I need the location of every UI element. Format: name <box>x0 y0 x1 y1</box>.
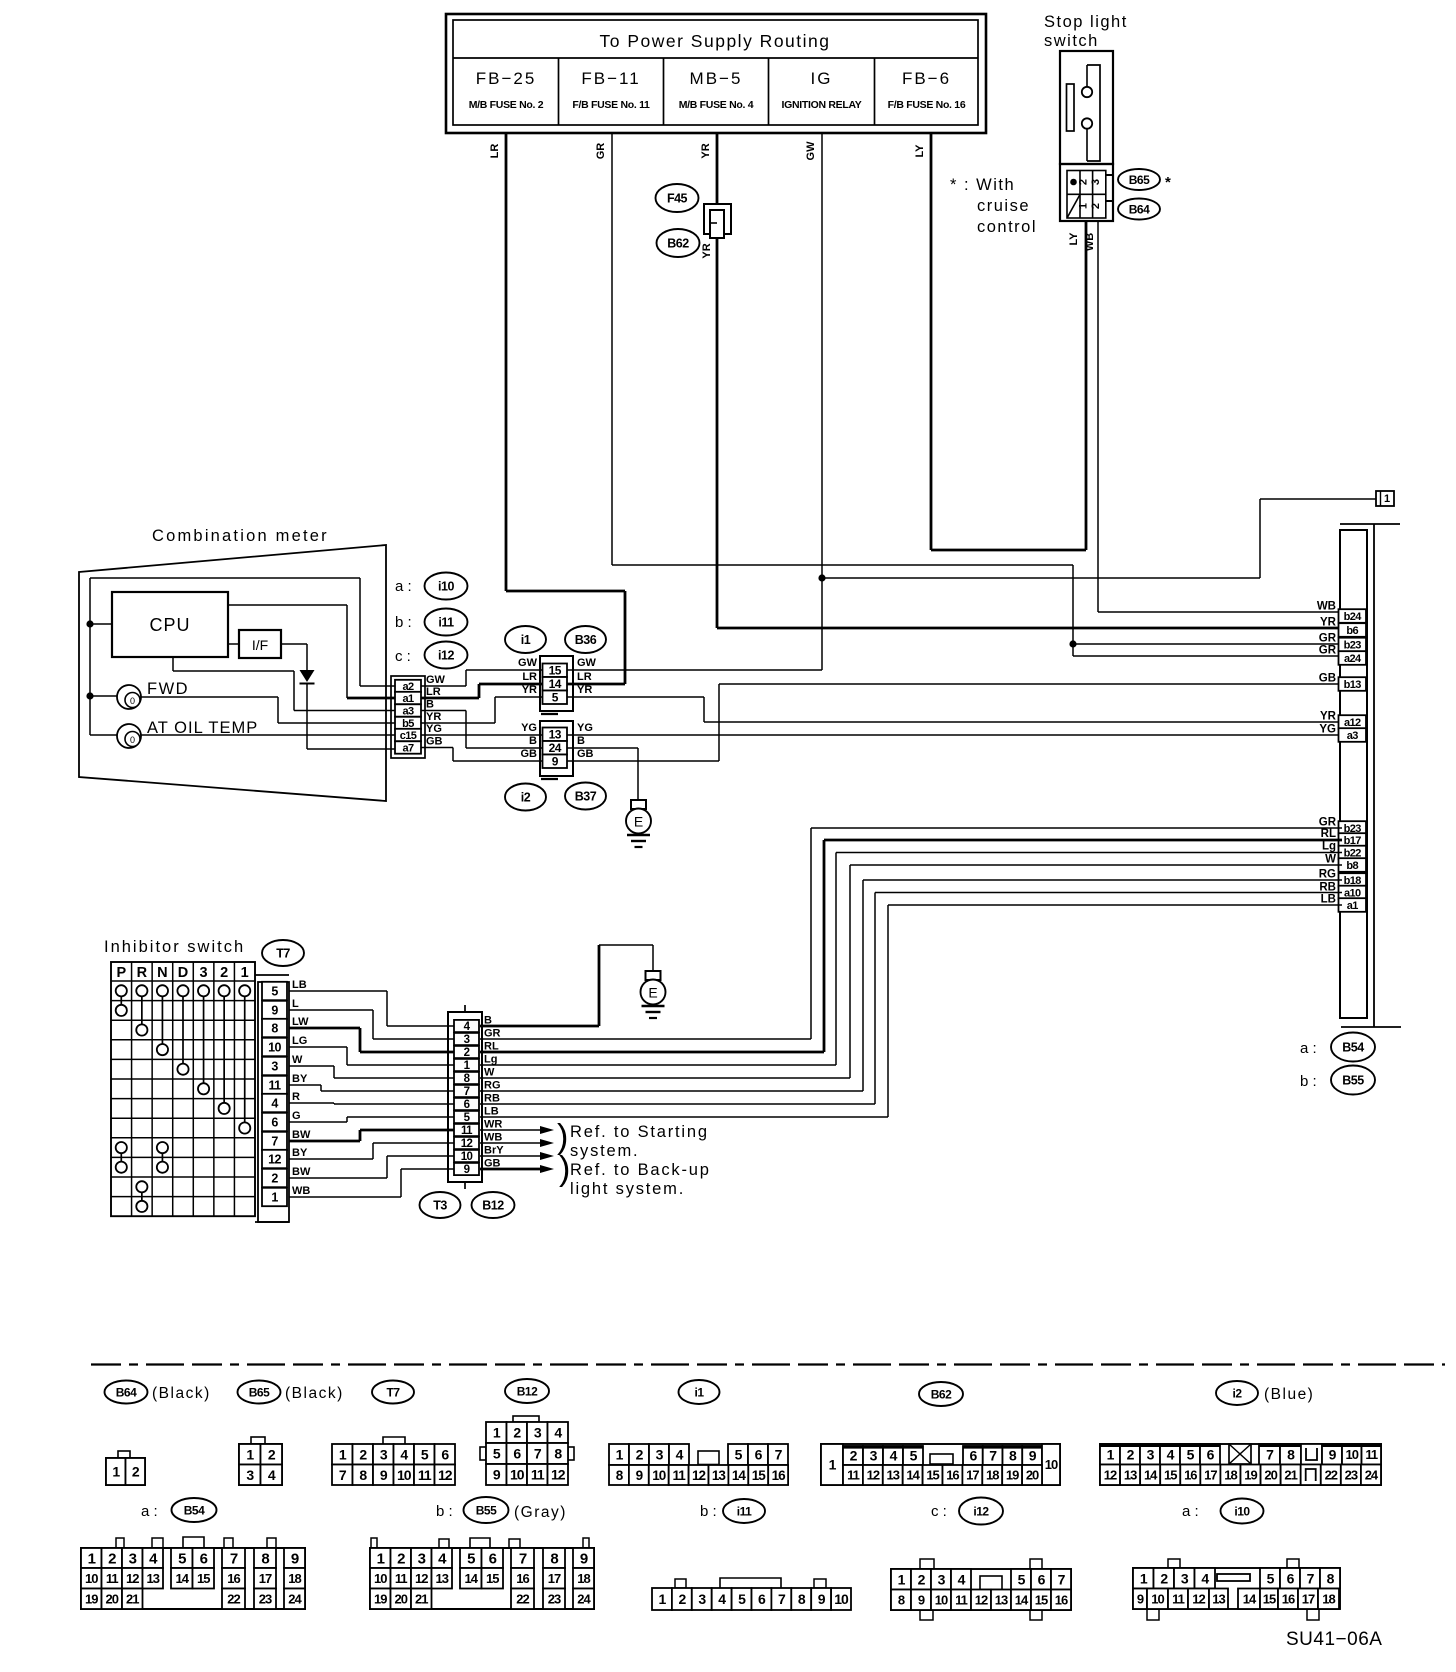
svg-text:E: E <box>648 985 657 1001</box>
svg-text:6: 6 <box>271 1116 278 1130</box>
svg-text:WB: WB <box>292 1185 310 1197</box>
wire BW T7 to B12 <box>289 1156 454 1178</box>
wire WB T7 to B12 <box>289 1169 454 1197</box>
svg-text:19: 19 <box>1006 1468 1019 1483</box>
svg-text:15: 15 <box>752 1468 767 1483</box>
matrix contact circles and links <box>116 985 251 1212</box>
svg-text:LG: LG <box>292 1035 307 1047</box>
connector B54 pin face <box>81 1537 305 1609</box>
svg-text:2: 2 <box>918 1571 926 1587</box>
svg-text:4: 4 <box>1201 1570 1209 1586</box>
svg-text:): ) <box>559 1150 570 1188</box>
connector B62 pin face <box>821 1444 1060 1485</box>
svg-text:5: 5 <box>1267 1570 1275 1586</box>
wire GW branch to connector 1 <box>822 499 1376 578</box>
svg-text:18: 18 <box>1322 1591 1335 1606</box>
connector label B37 <box>565 783 606 810</box>
svg-text:3: 3 <box>1090 179 1102 185</box>
svg-text:B62: B62 <box>667 237 689 251</box>
svg-text:13: 13 <box>887 1468 900 1483</box>
svg-text:20: 20 <box>1026 1468 1039 1483</box>
svg-text:6: 6 <box>969 1448 977 1464</box>
svg-text:B64: B64 <box>116 1385 137 1399</box>
svg-text:8: 8 <box>261 1550 269 1567</box>
svg-text:LR: LR <box>489 144 501 159</box>
fuse F45 <box>704 204 731 238</box>
svg-text:B12: B12 <box>482 1199 504 1213</box>
svg-text:6: 6 <box>200 1550 208 1567</box>
svg-text:3: 3 <box>698 1591 706 1607</box>
svg-text:9: 9 <box>1029 1448 1037 1464</box>
wire R T7 to B12 <box>289 1103 454 1104</box>
svg-text:1: 1 <box>829 1457 837 1473</box>
svg-text:6: 6 <box>489 1550 497 1567</box>
svg-text:LB: LB <box>292 979 307 991</box>
svg-text:1: 1 <box>271 1191 278 1205</box>
svg-text:FWD: FWD <box>147 680 189 698</box>
svg-text:IGNITION RELAY: IGNITION RELAY <box>781 99 861 111</box>
wire I/F to diode <box>281 644 307 670</box>
svg-text:22: 22 <box>1325 1467 1338 1482</box>
svg-text:6: 6 <box>1038 1571 1046 1587</box>
svg-text:16: 16 <box>516 1571 529 1586</box>
svg-text:4: 4 <box>268 1467 276 1483</box>
svg-text:YR: YR <box>700 143 712 158</box>
wire WB from stop light switch to b24 <box>1084 221 1342 612</box>
svg-text:B65: B65 <box>1129 173 1150 187</box>
svg-text:11: 11 <box>106 1571 119 1586</box>
svg-text:i2: i2 <box>521 791 531 805</box>
svg-text:9: 9 <box>580 1550 588 1567</box>
svg-text:R: R <box>292 1091 300 1103</box>
wire YR from MB-5 <box>700 133 717 628</box>
svg-text:6: 6 <box>513 1446 521 1462</box>
svg-text:B55: B55 <box>1342 1074 1364 1088</box>
svg-text:5: 5 <box>178 1550 186 1567</box>
svg-text:LB: LB <box>1321 894 1336 906</box>
wire GR B12 to TCU <box>480 828 1342 1039</box>
svg-text:2: 2 <box>268 1446 276 1462</box>
svg-text:Ref. to Starting: Ref. to Starting <box>570 1123 709 1141</box>
svg-text:*: * <box>1165 174 1171 191</box>
svg-text:14: 14 <box>1144 1467 1158 1482</box>
svg-text:3: 3 <box>870 1448 878 1464</box>
svg-text:6: 6 <box>755 1447 763 1463</box>
wire pin14 LR from FB-25 <box>567 671 625 684</box>
wire CPU left feed <box>90 623 112 625</box>
svg-text:11: 11 <box>673 1468 687 1483</box>
svg-text:a1: a1 <box>402 693 414 705</box>
label b : B55 <box>1300 1066 1375 1095</box>
svg-text:5: 5 <box>421 1446 429 1462</box>
wire BY T7 to B12 <box>289 1085 454 1091</box>
svg-text:21: 21 <box>415 1591 428 1606</box>
wire LG T7 to B12 <box>289 1047 454 1065</box>
svg-text:GR: GR <box>1319 817 1337 829</box>
svg-text:14: 14 <box>1243 1591 1257 1606</box>
svg-text:Lg: Lg <box>1322 841 1336 853</box>
svg-text:system.: system. <box>570 1142 639 1160</box>
svg-text:0: 0 <box>130 696 135 706</box>
svg-text:B55: B55 <box>476 1503 497 1517</box>
svg-text:c :: c : <box>931 1503 947 1520</box>
connector B55 pin face <box>370 1538 594 1609</box>
svg-text:21: 21 <box>126 1591 139 1606</box>
svg-text:6: 6 <box>464 1099 470 1111</box>
connector B65 pin face <box>239 1437 282 1485</box>
svg-text:23: 23 <box>259 1591 272 1606</box>
svg-text:RB: RB <box>484 1093 500 1105</box>
svg-text:3: 3 <box>1181 1570 1189 1586</box>
svg-text:23: 23 <box>548 1591 561 1606</box>
svg-text:To Power Supply Routing: To Power Supply Routing <box>600 31 831 51</box>
svg-text:7: 7 <box>230 1550 238 1567</box>
svg-text:GB: GB <box>426 736 443 748</box>
svg-text:4: 4 <box>958 1571 966 1587</box>
node FWD branch <box>86 692 93 699</box>
svg-text:i1: i1 <box>694 1385 704 1399</box>
svg-text:16: 16 <box>1282 1591 1295 1606</box>
connector label i2 bottom <box>1216 1381 1314 1405</box>
svg-text:1: 1 <box>493 1425 501 1441</box>
svg-text:i12: i12 <box>438 649 454 663</box>
svg-text:GR: GR <box>1319 633 1337 645</box>
svg-text:a12: a12 <box>1344 717 1361 729</box>
svg-text:14: 14 <box>1015 1592 1029 1607</box>
svg-text:YR: YR <box>426 711 441 723</box>
wire pin5 YR to a12 <box>567 684 1342 722</box>
ref to backup light system note <box>559 1150 711 1198</box>
connector i2 B37 <box>540 721 573 779</box>
wire YR to b6 <box>717 627 1342 630</box>
svg-text:3: 3 <box>129 1550 137 1567</box>
svg-text:c15: c15 <box>400 730 417 742</box>
svg-text:b :: b : <box>1300 1073 1317 1090</box>
connector label i1 bottom <box>679 1380 720 1404</box>
svg-text:YR: YR <box>577 684 592 696</box>
svg-text:7: 7 <box>1266 1446 1274 1462</box>
wire WB to starting system <box>480 1139 554 1147</box>
svg-text:9: 9 <box>818 1591 826 1607</box>
connector i2 pin face <box>1100 1444 1381 1485</box>
label a : i10 <box>395 573 468 600</box>
wire a7 to pin9 GB <box>421 748 542 762</box>
connector label T3 <box>420 1192 461 1218</box>
svg-text:GW: GW <box>577 657 597 669</box>
svg-text:Inhibitor switch: Inhibitor switch <box>104 938 245 956</box>
svg-text:FB−6: FB−6 <box>902 69 951 88</box>
TCU connector body <box>1340 530 1367 1018</box>
svg-text:GB: GB <box>577 748 594 760</box>
svg-text:15: 15 <box>549 664 562 678</box>
wire G T7 to B12 <box>289 1117 454 1122</box>
svg-text:6: 6 <box>441 1446 449 1462</box>
svg-text:WB: WB <box>484 1132 502 1144</box>
svg-text:12: 12 <box>975 1592 988 1607</box>
TCU wire labels <box>1317 601 1337 906</box>
B12 wire labels <box>484 1015 504 1170</box>
svg-text:16: 16 <box>772 1468 787 1483</box>
svg-text:YR: YR <box>701 243 713 258</box>
svg-text:12: 12 <box>551 1467 566 1483</box>
label b : i11 <box>395 609 468 636</box>
wire c15 to pin13 YG <box>421 722 542 735</box>
svg-text:14: 14 <box>465 1571 479 1586</box>
svg-text:18: 18 <box>577 1571 590 1586</box>
svg-text:B54: B54 <box>1342 1041 1364 1055</box>
svg-text:14: 14 <box>732 1468 747 1483</box>
svg-text:BrY: BrY <box>484 1145 504 1157</box>
connector 1 box <box>1376 491 1394 506</box>
svg-text:4: 4 <box>400 1446 408 1462</box>
svg-text:1: 1 <box>659 1591 667 1607</box>
label a : i10 bottom <box>1182 1499 1264 1524</box>
label b : i11 bottom <box>700 1499 765 1523</box>
connector label B65 bottom <box>238 1381 344 1404</box>
svg-text:R: R <box>137 965 148 981</box>
wire W T7 to B12 <box>289 1066 454 1078</box>
svg-text:BY: BY <box>292 1147 308 1159</box>
svg-text:15: 15 <box>1263 1591 1276 1606</box>
connector B12 pin face <box>480 1416 574 1485</box>
svg-text:YG: YG <box>1319 724 1336 736</box>
svg-text:1: 1 <box>241 965 249 981</box>
svg-text:23: 23 <box>1345 1467 1358 1482</box>
svg-text:1: 1 <box>616 1447 624 1463</box>
connector label B65 <box>1118 169 1171 191</box>
connector label T7 bottom <box>372 1381 414 1404</box>
svg-text:1: 1 <box>1384 493 1390 505</box>
svg-text:9: 9 <box>271 1004 278 1018</box>
svg-text:12: 12 <box>268 1153 281 1167</box>
svg-text:LY: LY <box>914 144 926 158</box>
TCU pin boxes <box>1339 609 1367 912</box>
svg-text:8: 8 <box>550 1550 558 1567</box>
wire a3 to pin24 B <box>421 711 542 749</box>
wire diode to a7 <box>307 683 395 749</box>
svg-text:7: 7 <box>464 1086 470 1098</box>
label b : B55 bottom <box>436 1497 567 1523</box>
svg-text:3: 3 <box>656 1447 664 1463</box>
wire pin24 B to ground <box>567 735 638 800</box>
svg-text:WB: WB <box>1084 233 1096 251</box>
svg-text:11: 11 <box>1365 1447 1378 1462</box>
wire pin15 GW from IG <box>567 657 822 670</box>
connector label B62 bottom <box>919 1382 963 1406</box>
svg-text:22: 22 <box>227 1591 240 1606</box>
separator dashed line <box>91 1363 1445 1365</box>
svg-text:15: 15 <box>486 1571 499 1586</box>
svg-text:10: 10 <box>397 1467 412 1483</box>
svg-text:9: 9 <box>1137 1591 1144 1606</box>
svg-text:a3: a3 <box>1347 730 1359 742</box>
svg-text:19: 19 <box>374 1591 387 1606</box>
svg-text:a3: a3 <box>402 705 414 717</box>
wire GB to backup system <box>480 1165 554 1173</box>
diode D1 <box>300 670 315 684</box>
svg-text:Lg: Lg <box>484 1054 497 1066</box>
svg-text:14: 14 <box>176 1571 190 1586</box>
svg-text:10: 10 <box>652 1468 666 1483</box>
node GW junction <box>818 574 825 581</box>
wire CPU to a1 <box>228 605 395 698</box>
wire RB B12 to TCU <box>480 893 1342 1105</box>
svg-text:2: 2 <box>1077 179 1089 185</box>
wire pin9 GB to b13 <box>567 684 1342 761</box>
svg-text:LW: LW <box>292 1016 309 1028</box>
connector label i2 <box>505 784 546 811</box>
svg-text:6: 6 <box>1207 1446 1215 1462</box>
svg-text:i11: i11 <box>438 616 454 630</box>
svg-text:2: 2 <box>1160 1570 1168 1586</box>
svg-text:2: 2 <box>359 1446 367 1462</box>
svg-text:RB: RB <box>1319 882 1336 894</box>
stop light switch <box>1044 13 1128 164</box>
connector label F45 <box>656 184 699 212</box>
svg-text:B: B <box>529 735 537 747</box>
svg-text:0: 0 <box>130 735 135 745</box>
svg-text:b :: b : <box>436 1503 453 1520</box>
svg-text:b8: b8 <box>1346 860 1358 872</box>
svg-text:a :: a : <box>141 1503 158 1520</box>
node GR junction <box>1069 640 1076 647</box>
wire LB B12 to TCU <box>480 905 1342 1117</box>
svg-text:a :: a : <box>395 578 412 595</box>
svg-text:3: 3 <box>534 1425 542 1441</box>
svg-text:a :: a : <box>1182 1503 1199 1520</box>
svg-text:BY: BY <box>292 1073 308 1085</box>
svg-text:BW: BW <box>292 1129 311 1141</box>
node CPU supply <box>86 620 93 627</box>
connector i1 B36 <box>540 656 573 714</box>
svg-text:9: 9 <box>918 1592 925 1607</box>
svg-text:B54: B54 <box>184 1503 205 1517</box>
svg-text:2: 2 <box>850 1448 858 1464</box>
svg-text:YG: YG <box>577 722 593 734</box>
svg-text:Stop light: Stop light <box>1044 13 1128 31</box>
svg-text:9: 9 <box>380 1467 388 1483</box>
connector i10 pin face <box>1133 1559 1340 1620</box>
svg-text:13: 13 <box>436 1571 449 1586</box>
svg-text:9: 9 <box>464 1164 470 1176</box>
svg-text:b6: b6 <box>1346 625 1358 637</box>
svg-text:2: 2 <box>108 1550 116 1567</box>
svg-text:E: E <box>634 814 643 830</box>
svg-text:YR: YR <box>1320 711 1337 723</box>
svg-text:24: 24 <box>1365 1467 1379 1482</box>
connector label T7 top <box>262 940 304 966</box>
svg-text:3: 3 <box>938 1571 946 1587</box>
wire WR to starting system <box>480 1126 554 1134</box>
combination meter outline <box>79 527 386 801</box>
label a : B54 bottom <box>141 1498 217 1522</box>
svg-text:7: 7 <box>775 1447 783 1463</box>
svg-text:2: 2 <box>220 965 228 981</box>
svg-text:7: 7 <box>519 1550 527 1567</box>
svg-text:11: 11 <box>847 1468 860 1483</box>
svg-text:17: 17 <box>1204 1467 1217 1482</box>
inhibitor switch contact matrix <box>111 962 255 1216</box>
svg-text:8: 8 <box>798 1591 806 1607</box>
connector label B12 bottom <box>505 1379 549 1403</box>
svg-text:4: 4 <box>271 1097 278 1111</box>
wire LW T7 to B12 <box>289 1028 454 1052</box>
meter connector pin column <box>391 676 425 758</box>
svg-text:a7: a7 <box>402 742 414 754</box>
svg-text:7: 7 <box>989 1448 997 1464</box>
svg-text:light system.: light system. <box>570 1180 685 1198</box>
label a : B54 <box>1300 1033 1375 1062</box>
wire RG B12 to TCU <box>480 880 1342 1091</box>
svg-text:3: 3 <box>464 1034 470 1046</box>
svg-text:12: 12 <box>692 1468 706 1483</box>
svg-text:8: 8 <box>359 1467 367 1483</box>
wire b5 to pin5 YR <box>421 684 542 723</box>
svg-text:i12: i12 <box>973 1504 989 1518</box>
svg-text:11: 11 <box>461 1125 473 1137</box>
svg-text:2: 2 <box>636 1447 644 1463</box>
svg-text:1: 1 <box>377 1550 385 1567</box>
wire AT OIL TEMP feed <box>90 734 117 736</box>
wire BY T7 to B12 <box>289 1143 454 1159</box>
svg-text:13: 13 <box>549 728 562 742</box>
svg-text:15: 15 <box>1164 1467 1177 1482</box>
wire LY from FB-6 <box>914 133 1086 550</box>
svg-text:8: 8 <box>271 1022 278 1036</box>
connector label B12 mid <box>472 1192 515 1218</box>
svg-text:YG: YG <box>426 723 442 735</box>
svg-text:3: 3 <box>246 1467 254 1483</box>
svg-text:i1: i1 <box>521 633 531 647</box>
svg-text:YG: YG <box>521 722 537 734</box>
svg-text:20: 20 <box>1264 1467 1277 1482</box>
svg-text:17: 17 <box>966 1468 979 1483</box>
svg-text:11: 11 <box>1172 1591 1185 1606</box>
stop light switch connector B64 B65 pins <box>1060 164 1113 221</box>
svg-text:i11: i11 <box>737 1504 752 1518</box>
svg-text:B64: B64 <box>1129 202 1150 216</box>
svg-text:5: 5 <box>910 1448 918 1464</box>
svg-text:B: B <box>426 699 434 711</box>
svg-text:P: P <box>116 965 126 981</box>
svg-text:10: 10 <box>510 1467 525 1483</box>
svg-text:3: 3 <box>1147 1446 1155 1462</box>
svg-text:* : With: * : With <box>950 176 1015 194</box>
svg-text:17: 17 <box>548 1571 561 1586</box>
svg-text:6: 6 <box>758 1591 766 1607</box>
wire Lg B12 to TCU <box>480 853 1342 1066</box>
T7 wire labels <box>292 979 311 1197</box>
svg-text:5: 5 <box>738 1591 746 1607</box>
svg-text:LR: LR <box>522 671 537 683</box>
svg-text:12: 12 <box>126 1571 139 1586</box>
note with cruise control <box>950 176 1037 236</box>
svg-text:b :: b : <box>700 1503 717 1520</box>
svg-text:10: 10 <box>1346 1447 1359 1462</box>
inhibitor switch connector T7 pin column <box>255 975 289 1222</box>
svg-text:5: 5 <box>271 985 278 999</box>
wire W B12 to TCU <box>480 865 1342 1078</box>
svg-text:1: 1 <box>112 1464 120 1480</box>
svg-text:GW: GW <box>805 141 817 161</box>
svg-text:GB: GB <box>1319 673 1336 685</box>
svg-text:9: 9 <box>291 1550 299 1567</box>
svg-text:YR: YR <box>1320 617 1337 629</box>
svg-text:i10: i10 <box>438 580 454 594</box>
wire L T7 to B12 <box>289 1010 454 1039</box>
svg-text:10: 10 <box>834 1591 849 1607</box>
svg-text:2: 2 <box>513 1425 521 1441</box>
